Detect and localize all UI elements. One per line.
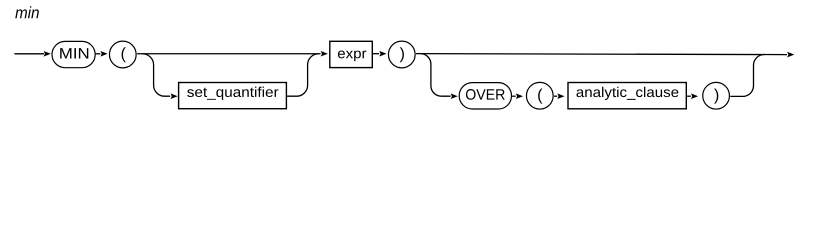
terminal ): [388, 41, 415, 68]
non-terminal expr: [330, 41, 373, 67]
wire MIN to (: [96, 53, 101, 55]
terminal ( 2: [526, 82, 553, 109]
wire rejoin from ) to main: [730, 55, 764, 97]
wire main to end: [416, 53, 787, 56]
wire main to expr: [137, 53, 321, 55]
terminal OVER: [459, 83, 511, 109]
wire OVER to (: [512, 95, 516, 97]
non-terminal analytic_clause: [568, 83, 686, 109]
wire start: [14, 53, 44, 55]
wire analytic_clause to ): [687, 95, 691, 97]
non-terminal set_quantifier: [179, 83, 287, 109]
terminal MIN: [52, 41, 95, 67]
wire expr to ): [373, 53, 379, 55]
terminal ) 2: [703, 82, 730, 109]
terminal (: [109, 41, 136, 68]
wire ( to analytic_clause: [554, 95, 557, 97]
wire rejoin from set_quantifier: [287, 54, 319, 96]
wire branch down to set_quantifier: [142, 54, 170, 96]
wire branch down to OVER: [420, 54, 450, 97]
title min: [15, 6, 39, 18]
